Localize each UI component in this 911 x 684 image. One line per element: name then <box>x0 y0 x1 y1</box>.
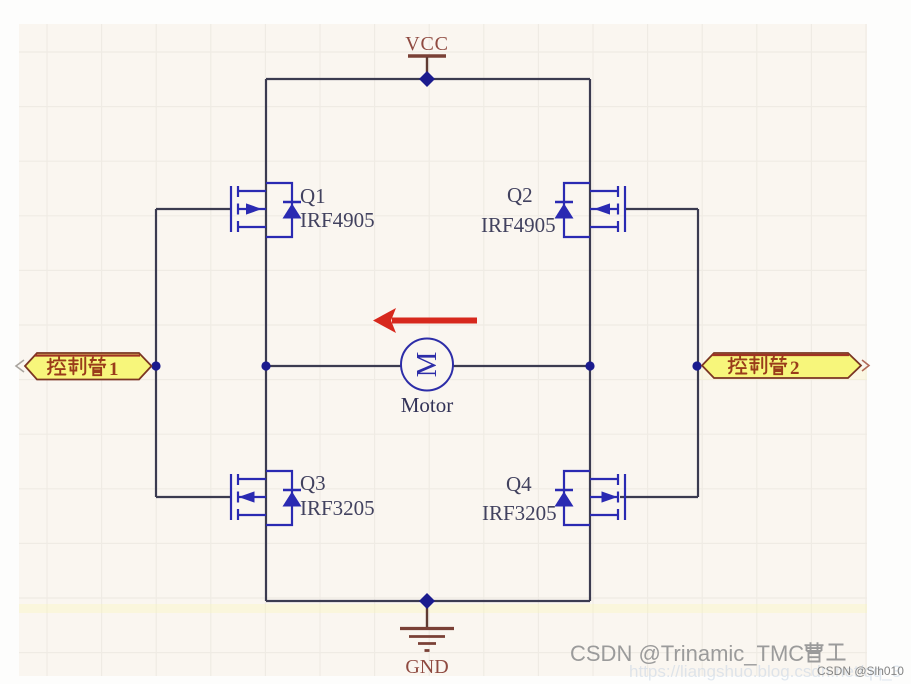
svg-text:Q3: Q3 <box>300 471 326 495</box>
wire: top rail VCC bus <box>266 78 590 80</box>
svg-text:VCC: VCC <box>405 33 449 55</box>
wire: right gate bus (Q2/Q4 gates to port 2) <box>697 209 699 497</box>
svg-text:2: 2 <box>790 358 800 379</box>
wire: bottom rail GND bus <box>266 600 590 602</box>
wire: right branch upper (Q2 drain-source) <box>589 79 591 366</box>
transistor Q1 (IRF4905 P-MOSFET) <box>231 183 292 237</box>
wire: left branch lower (Q3 drain-source) <box>265 366 267 601</box>
junction: port2 to right gate bus <box>692 361 701 370</box>
wire: right branch lower (Q4 drain-source) <box>589 366 591 601</box>
svg-text:Q2: Q2 <box>507 183 533 207</box>
svg-text:CSDN @Slh010: CSDN @Slh010 <box>817 664 904 678</box>
wire: middle rail through motor <box>266 365 590 367</box>
junction: right branch to middle rail <box>585 361 594 370</box>
junction: VCC tap on top rail <box>419 71 435 87</box>
power port VCC <box>405 33 449 79</box>
svg-text:IRF4905: IRF4905 <box>300 208 375 232</box>
svg-text:IRF3205: IRF3205 <box>482 501 557 525</box>
ground GND <box>400 601 454 678</box>
svg-text:IRF3205: IRF3205 <box>300 496 375 520</box>
svg-text:CSDN @Trinamic_TMC: CSDN @Trinamic_TMC <box>570 641 804 666</box>
junction: port1 to left gate bus <box>151 361 160 370</box>
motor M1 (circle with rotated M) <box>401 339 453 391</box>
watermark CSDN @Trinamic_TMC曹工 <box>570 641 846 666</box>
wire: Q3 gate lead <box>156 496 232 498</box>
wire: left gate bus (Q1/Q3 gates to port 1) <box>155 209 157 497</box>
wire: Q2 gate lead <box>625 208 698 210</box>
svg-text:M: M <box>411 352 443 378</box>
junction: left branch to middle rail <box>261 361 270 370</box>
transistor Q4 (IRF3205 N-MOSFET) <box>564 471 625 525</box>
svg-text:1: 1 <box>109 359 119 380</box>
transistor Q2 (IRF4905 P-MOSFET) <box>564 183 625 237</box>
wire: Q4 gate lead <box>620 496 698 498</box>
junction: GND tap on bottom rail <box>419 593 435 609</box>
wire: left branch upper (Q1 drain-source) <box>265 79 267 366</box>
svg-text:Q1: Q1 <box>300 184 326 208</box>
port 控制管2 (control gate 2) <box>702 353 869 379</box>
current direction arrow (red) <box>373 308 477 333</box>
wire: Q1 gate lead <box>156 208 231 210</box>
transistor Q3 (IRF3205 N-MOSFET) <box>231 471 292 525</box>
svg-text:GND: GND <box>405 656 448 678</box>
svg-text:Q4: Q4 <box>506 472 532 496</box>
svg-text:Motor: Motor <box>401 393 454 417</box>
port 控制管1 (control gate 1) <box>16 353 152 380</box>
svg-text:IRF4905: IRF4905 <box>481 213 556 237</box>
